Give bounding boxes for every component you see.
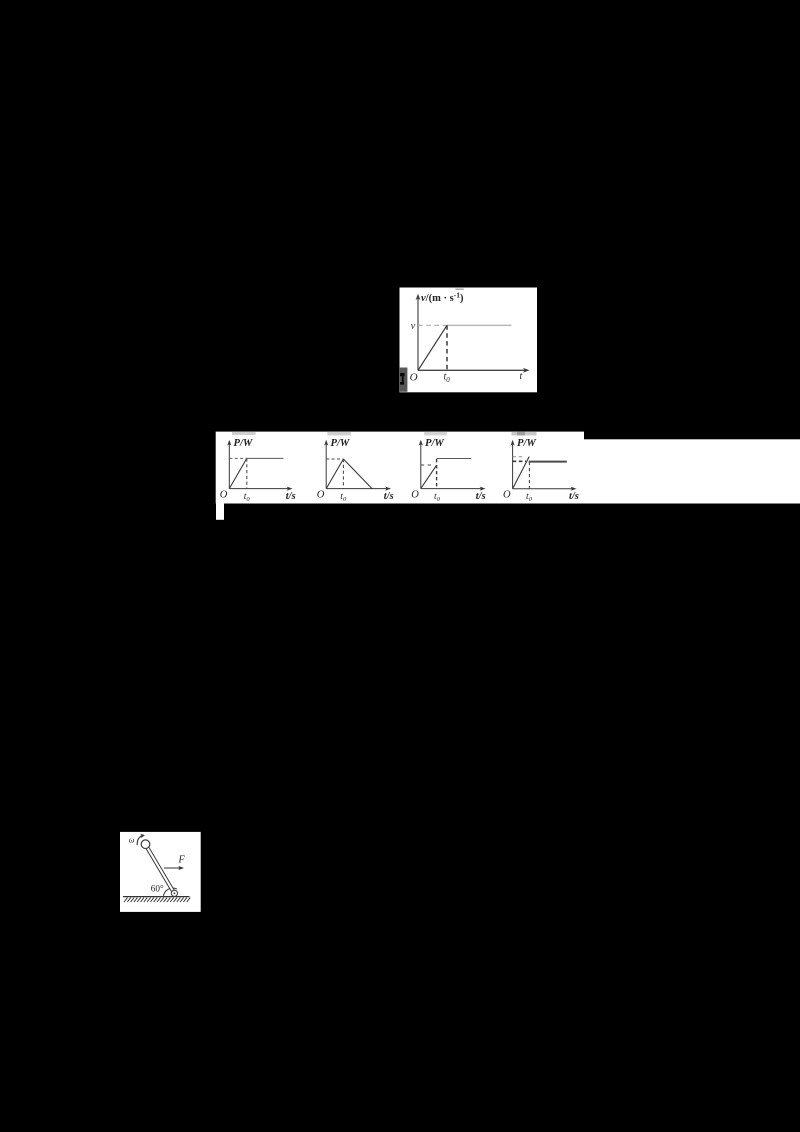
svg-text:v: v xyxy=(411,321,416,332)
dashed horiz D lower (dark) xyxy=(513,460,526,462)
axes D xyxy=(513,443,573,488)
svg-text:t/s: t/s xyxy=(384,491,394,502)
svg-text:O: O xyxy=(411,489,419,500)
svg-text:O: O xyxy=(317,489,325,500)
svg-text:t: t xyxy=(520,371,523,382)
smudge D xyxy=(512,432,537,436)
faint remnant line above superscript xyxy=(456,289,464,290)
dashed horizontal to v xyxy=(418,324,447,326)
triangle fall B xyxy=(343,459,372,489)
redaction gray block xyxy=(400,368,408,392)
pivot circle xyxy=(171,890,177,896)
smudge B xyxy=(327,432,351,436)
v axis arrowhead xyxy=(416,294,421,301)
dashed horiz B xyxy=(326,458,343,460)
F arrow xyxy=(164,867,181,869)
dashed horiz C (short) xyxy=(421,464,432,466)
t axis (horizontal) xyxy=(418,369,525,371)
dashed horiz A xyxy=(229,457,247,459)
step plateau C xyxy=(437,458,472,460)
svg-text:P/W: P/W xyxy=(234,438,254,449)
white band left part xyxy=(216,432,584,504)
t axis arrowhead xyxy=(523,368,530,373)
rising line C xyxy=(421,466,437,489)
axes B xyxy=(326,443,387,488)
dashed vert C xyxy=(436,459,438,489)
svg-text:60°: 60° xyxy=(151,884,164,894)
svg-text:P/W: P/W xyxy=(425,438,445,449)
dashed vert B xyxy=(342,459,344,489)
svg-text:F: F xyxy=(178,855,186,866)
dashed vert D xyxy=(528,462,530,489)
triangle rise B xyxy=(326,459,343,489)
svg-text:t/s: t/s xyxy=(476,491,486,502)
ball xyxy=(141,840,150,849)
rising line segment xyxy=(418,325,447,370)
svg-text:O: O xyxy=(503,489,511,500)
figure 2: strip of four P/W graphs xyxy=(215,431,800,521)
svg-text:ω: ω xyxy=(129,836,135,845)
plateau D (thick) xyxy=(529,461,567,463)
rising line A xyxy=(229,458,247,488)
smudge C xyxy=(424,432,447,436)
ground line xyxy=(123,896,190,898)
svg-text:t/s: t/s xyxy=(286,491,296,502)
ground hatching xyxy=(124,898,190,902)
dashed horiz D upper (light) xyxy=(513,456,525,458)
plateau line (light) xyxy=(447,324,512,326)
rod (double line) xyxy=(145,844,176,894)
white sliver bottom-left xyxy=(216,503,224,520)
smudge A xyxy=(232,432,256,435)
axes A xyxy=(229,443,289,488)
svg-text:P/W: P/W xyxy=(331,438,351,449)
white panel xyxy=(400,288,538,393)
svg-text:O: O xyxy=(220,489,228,500)
svg-text:O: O xyxy=(410,371,418,383)
dashed vert A xyxy=(246,458,248,488)
rising line D xyxy=(513,457,530,489)
svg-text:t/s: t/s xyxy=(569,491,579,502)
dashed vertical at t0 xyxy=(446,325,448,370)
white band right part xyxy=(584,439,800,503)
axes C xyxy=(421,443,482,488)
white panel xyxy=(120,832,201,912)
svg-text:P/W: P/W xyxy=(517,438,537,449)
pivot dot xyxy=(174,892,176,894)
plateau A xyxy=(247,457,284,459)
figure 1: v-t graph xyxy=(399,287,537,393)
v axis (vertical) xyxy=(417,297,419,370)
figure 3: rod on ground xyxy=(120,831,201,912)
angle arc xyxy=(163,888,177,897)
curved arrow xyxy=(137,836,142,846)
